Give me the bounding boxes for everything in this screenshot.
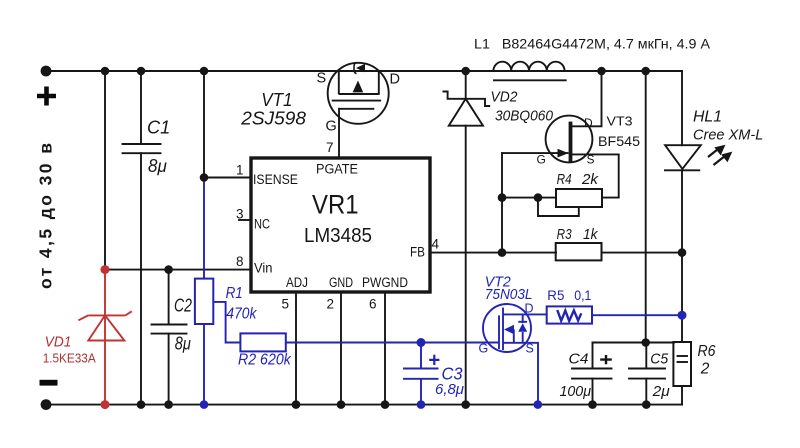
- svg-text:S: S: [587, 153, 595, 167]
- svg-text:G: G: [479, 342, 489, 356]
- svg-text:LM3485: LM3485: [304, 224, 372, 247]
- svg-text:0,1: 0,1: [574, 287, 591, 303]
- svg-text:HL1: HL1: [693, 109, 722, 126]
- svg-text:S: S: [317, 71, 327, 87]
- svg-text:GND: GND: [329, 275, 353, 290]
- svg-text:PGATE: PGATE: [316, 162, 358, 177]
- svg-text:100μ: 100μ: [560, 384, 592, 400]
- svg-text:Vin: Vin: [254, 261, 273, 276]
- svg-text:R2 620k: R2 620k: [238, 352, 292, 369]
- svg-text:NC: NC: [254, 217, 270, 232]
- svg-text:2k: 2k: [581, 171, 600, 188]
- svg-text:R5: R5: [547, 287, 564, 303]
- svg-text:G: G: [537, 153, 546, 167]
- svg-text:6,8μ: 6,8μ: [435, 382, 464, 398]
- svg-text:R1: R1: [226, 285, 243, 302]
- svg-text:VR1: VR1: [312, 190, 359, 220]
- svg-text:1.5KE33A: 1.5KE33A: [43, 351, 96, 366]
- svg-text:ISENSE: ISENSE: [253, 172, 298, 187]
- svg-text:8: 8: [236, 254, 244, 269]
- svg-text:VD1: VD1: [45, 334, 72, 351]
- svg-text:8μ: 8μ: [175, 334, 191, 354]
- svg-text:5: 5: [281, 297, 289, 312]
- svg-text:75N03L: 75N03L: [485, 287, 533, 303]
- svg-text:R3: R3: [557, 226, 573, 243]
- svg-text:VT3: VT3: [607, 113, 633, 128]
- svg-text:S: S: [526, 342, 534, 356]
- svg-text:7: 7: [326, 140, 334, 155]
- svg-text:R4: R4: [557, 171, 572, 188]
- svg-text:L1 B82464G4472M, 4.7 мкГн, 4: L1 B82464G4472M, 4.7 мкГн, 4.9 А: [474, 37, 711, 52]
- svg-text:VD2: VD2: [491, 90, 518, 106]
- svg-text:C2: C2: [174, 296, 192, 316]
- svg-text:ADJ: ADJ: [286, 275, 308, 290]
- svg-text:Cree XM-L: Cree XM-L: [693, 127, 763, 144]
- svg-text:C4: C4: [569, 352, 589, 368]
- svg-text:C5: C5: [650, 352, 669, 368]
- svg-text:C3: C3: [442, 364, 463, 384]
- svg-text:4: 4: [431, 237, 439, 252]
- svg-text:2: 2: [326, 297, 334, 312]
- svg-text:C1: C1: [147, 117, 170, 138]
- svg-text:470k: 470k: [226, 306, 257, 323]
- svg-text:3: 3: [236, 207, 244, 222]
- svg-text:PWGND: PWGND: [362, 275, 408, 290]
- svg-text:D: D: [525, 302, 534, 316]
- svg-text:D: D: [584, 116, 593, 130]
- svg-text:G: G: [326, 119, 337, 135]
- svg-text:2SJ598: 2SJ598: [240, 109, 306, 129]
- svg-text:BF545: BF545: [598, 133, 640, 149]
- svg-text:2μ: 2μ: [652, 384, 670, 400]
- svg-text:1k: 1k: [583, 226, 599, 243]
- svg-text:VT1: VT1: [261, 89, 292, 110]
- svg-text:R6: R6: [698, 343, 716, 360]
- svg-text:6: 6: [369, 297, 377, 312]
- svg-text:1: 1: [236, 163, 244, 178]
- svg-text:D: D: [390, 72, 400, 88]
- svg-text:8μ: 8μ: [148, 156, 167, 176]
- svg-text:30BQ060: 30BQ060: [495, 109, 553, 125]
- svg-text:FB: FB: [410, 245, 425, 260]
- svg-text:2: 2: [700, 361, 710, 378]
